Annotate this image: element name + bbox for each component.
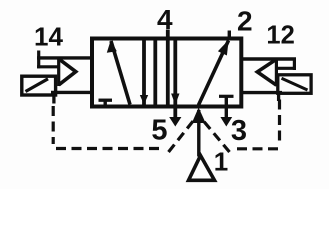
1->2 arrowhead (up): [218, 40, 229, 56]
svg-text:14: 14: [34, 22, 63, 52]
right override diagonal: [282, 78, 308, 90]
port 1 supply line: [197, 110, 200, 157]
svg-text:4: 4: [157, 4, 173, 35]
dashed pilot line left horizontal: [56, 147, 162, 150]
dashed pilot line right diagonal: [204, 121, 230, 152]
right pilot 12: bracket nub: [293, 58, 296, 71]
v1 down arrowhead: [140, 95, 148, 105]
dashed pilot line right horizontal: [234, 147, 278, 150]
right pilot triangle base: [275, 58, 278, 86]
dashed pilot line left diagonal: [169, 121, 194, 153]
blocked port 3 T in right square: [219, 95, 234, 98]
left square vertical flow line v2: [153, 41, 157, 105]
svg-text:1: 1: [214, 146, 228, 176]
left manual override box: [22, 76, 56, 95]
left pilot triangle sides: [59, 59, 76, 85]
right pilot drop line: [277, 93, 280, 101]
left pilot drop line: [52, 95, 55, 104]
svg-text:2: 2: [237, 6, 253, 37]
svg-text:12: 12: [266, 21, 294, 49]
left override diagonal: [26, 79, 49, 92]
dashed pilot line right vertical: [278, 100, 281, 143]
right square 1->2 diagonal flow path: [199, 41, 229, 106]
port 2 connection line: [228, 31, 231, 41]
svg-text:3: 3: [231, 115, 247, 147]
left pilot 14: bracket nub: [37, 51, 40, 69]
port 1 up arrowhead: [192, 108, 206, 124]
right pilot bottom line: [242, 91, 282, 94]
right manual override box: [278, 75, 311, 94]
left pilot 14: top line: [37, 56, 92, 59]
port 3 exhaust arrowhead: [220, 117, 232, 127]
svg-text:5: 5: [151, 115, 167, 147]
left square vertical flow line v1: [142, 41, 146, 105]
divider between squares / port 4 line: [166, 30, 170, 107]
right pilot triangle sides: [257, 59, 276, 85]
left pilot triangle base: [57, 58, 60, 86]
left pilot 14: inner line B: [37, 65, 59, 68]
left square diagonal flow path: [111, 41, 130, 105]
right pilot 12: top line: [241, 57, 296, 60]
4->5 internal arrowhead: [171, 94, 179, 105]
port 5 exhaust arrowhead: [169, 117, 181, 127]
right square 4->5 vertical flow line: [173, 41, 177, 119]
supply source triangle: [189, 156, 215, 181]
right pilot 12: inner line B: [276, 67, 296, 70]
left pilot bottom line: [51, 91, 92, 94]
dashed pilot line left vertical: [52, 106, 55, 144]
left diagonal arrowhead (up): [107, 40, 117, 53]
valve body outline (two-position 5/2 valve): [92, 39, 241, 107]
blocked port T in left square: [99, 99, 113, 102]
